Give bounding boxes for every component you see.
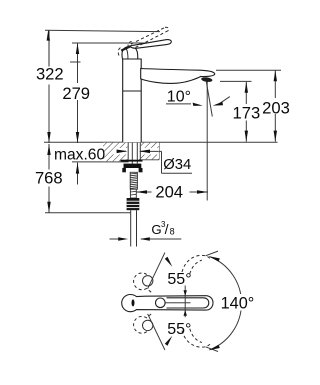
svg-text:10°: 10° (167, 89, 191, 106)
svg-text:Ø34: Ø34 (163, 157, 191, 173)
svg-text:140°: 140° (221, 294, 255, 312)
svg-text:322: 322 (36, 65, 64, 84)
svg-text:768: 768 (35, 168, 63, 187)
svg-text:279: 279 (62, 84, 90, 103)
svg-text:8: 8 (170, 227, 175, 237)
svg-text:55°: 55° (167, 321, 191, 338)
svg-text:173: 173 (233, 104, 261, 123)
svg-text:/: / (165, 221, 169, 237)
svg-text:203: 203 (262, 99, 290, 118)
svg-text:max.60: max.60 (54, 146, 105, 163)
svg-text:204: 204 (155, 182, 183, 201)
svg-text:55°: 55° (167, 271, 191, 288)
